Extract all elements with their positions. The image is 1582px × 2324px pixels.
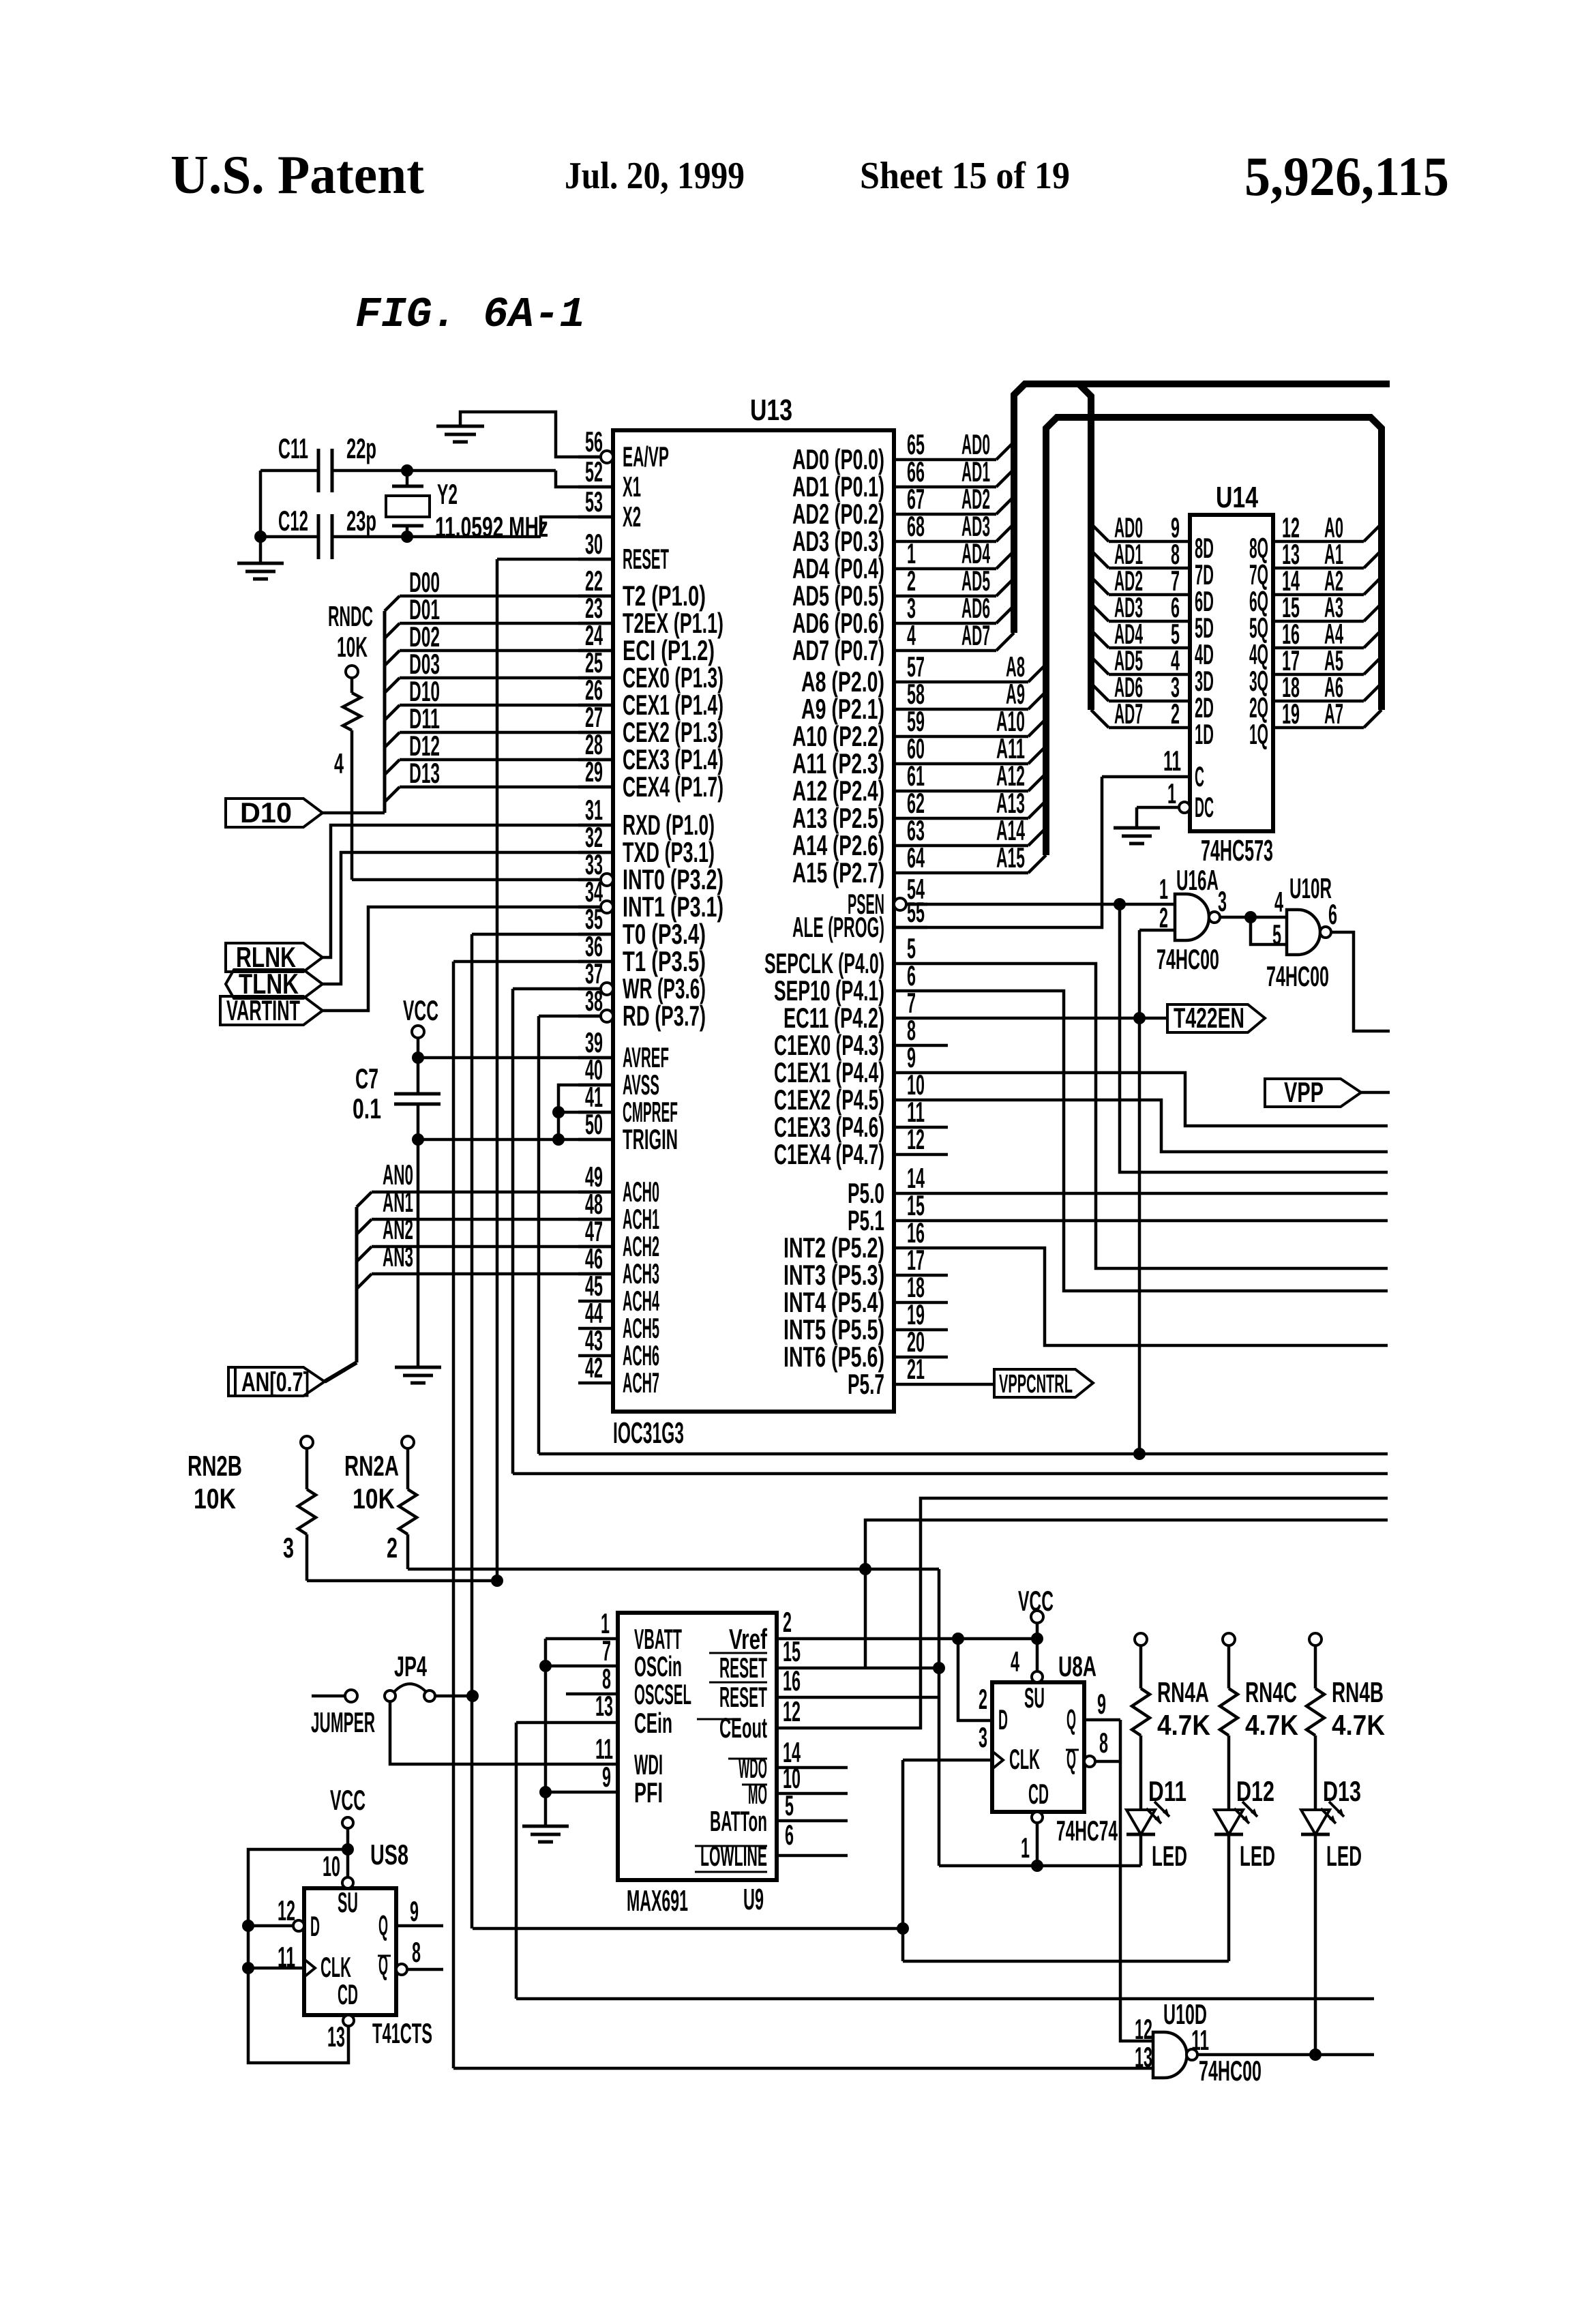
svg-text:RN4C: RN4C xyxy=(1245,1676,1297,1708)
svg-text:D13: D13 xyxy=(1323,1775,1361,1807)
ground above U13 for EA/VP xyxy=(436,425,484,428)
wire CEout rail L3 xyxy=(777,1498,1388,1728)
svg-text:AN3: AN3 xyxy=(383,1240,413,1272)
U13 pin 67 AD2 (P0.2) xyxy=(894,513,927,516)
U13 pin 7 EC11 (P4.2) xyxy=(894,1017,927,1020)
U13 pin 15 P5.1 xyxy=(894,1219,927,1223)
svg-text:6: 6 xyxy=(1328,898,1337,930)
svg-text:2: 2 xyxy=(783,1606,792,1638)
resistor RNDC 10K xyxy=(346,666,358,678)
wire A9 from U13 pin to bus xyxy=(927,708,1028,711)
junction VCC-Vref xyxy=(1031,1633,1043,1645)
wire MAX691 pin15 to vertical xyxy=(777,1667,939,1670)
U14 input pin 3 AD6 xyxy=(1091,683,1109,701)
U10D pin 13 wire xyxy=(453,2067,1153,2070)
junction RESET net xyxy=(491,1575,503,1587)
junction T422EN branch xyxy=(1133,1012,1146,1024)
svg-text:T41CTS: T41CTS xyxy=(372,2017,432,2049)
svg-text:AD7: AD7 xyxy=(961,619,990,651)
wire MAX691 pin16 xyxy=(777,1696,939,1699)
junction PFI xyxy=(539,1786,552,1798)
svg-text:Q: Q xyxy=(378,1949,388,1981)
svg-text:9: 9 xyxy=(602,1761,611,1793)
svg-text:D13: D13 xyxy=(409,757,440,789)
wire AD6 from U13 pin to bus xyxy=(927,622,996,625)
U13 pin 40 AVSS xyxy=(578,1084,613,1087)
wire JP4 to T0 vertical xyxy=(435,1695,473,1698)
wire C1EX1 P4.4 to right rail xyxy=(927,1073,1388,1126)
wire U16A pin2 down to bottom rail xyxy=(1138,930,1141,1454)
U13 pin 33 INT0 (P3.2) xyxy=(601,874,613,886)
wire ALE to U14 C xyxy=(894,777,1102,927)
U14 output pin 14 A2 xyxy=(1273,593,1364,597)
wire P5.0 to right xyxy=(927,1192,1388,1195)
junction CMPREF xyxy=(552,1106,565,1118)
svg-text:12: 12 xyxy=(1135,2013,1152,2045)
U13 pin 43 ACH6 xyxy=(578,1354,613,1358)
U9 pin 5 BATTon stub xyxy=(777,1819,848,1823)
capacitor C7 0.1 xyxy=(417,1058,420,1094)
svg-text:Vref: Vref xyxy=(729,1623,768,1655)
wire down to U8A D input xyxy=(958,1639,992,1720)
U14 pin 11 C latch enable xyxy=(1102,775,1190,779)
svg-text:CD: CD xyxy=(338,1978,358,2010)
bottom long line from CEin xyxy=(516,1997,1374,2001)
analog bus spine AN0-AN3 xyxy=(355,1207,359,1362)
svg-text:U10R: U10R xyxy=(1289,872,1332,904)
wire RESET down to RN2B net xyxy=(497,558,613,561)
bottom rail 2 from WR xyxy=(513,1472,1388,1476)
svg-text:P5.7: P5.7 xyxy=(848,1368,884,1400)
svg-text:1: 1 xyxy=(1159,873,1168,905)
resistor RN2A 10K xyxy=(402,1436,414,1448)
wire D02 to U13 xyxy=(385,651,400,666)
U13 pin 8 C1EX0 (P4.3) xyxy=(894,1044,927,1047)
svg-text:1D: 1D xyxy=(1195,718,1214,750)
svg-text:US8: US8 xyxy=(370,1838,408,1871)
svg-text:EA/VP: EA/VP xyxy=(623,441,669,473)
svg-text:5: 5 xyxy=(785,1789,794,1821)
svg-text:2: 2 xyxy=(979,1683,987,1715)
wire JP4 line xyxy=(473,1927,903,1931)
junction U8A CD xyxy=(1031,1860,1043,1872)
wire X2 into pin 53 xyxy=(541,517,613,537)
wire AD0 from U13 pin to bus xyxy=(927,458,996,462)
svg-text:JUMPER: JUMPER xyxy=(311,1706,375,1738)
wire AD7 from U13 pin to bus xyxy=(927,649,996,653)
svg-text:RESET: RESET xyxy=(623,543,669,575)
U13 pin 50 TRIGIN xyxy=(578,1138,613,1142)
svg-text:21: 21 xyxy=(907,1353,925,1385)
U9 pin 10 MO stub xyxy=(777,1792,848,1796)
wire INT5 stub xyxy=(927,1328,948,1332)
wire P5.7 to VPPCNTRL xyxy=(927,1383,994,1386)
wire JP4 left pin to WDI xyxy=(390,1702,618,1764)
U9 pin 7 OSCin xyxy=(546,1665,618,1668)
U14 input pin 6 AD3 xyxy=(1091,604,1109,621)
U13 pin 57 A8 (P2.0) xyxy=(894,681,927,684)
U13 pin 4 AD7 (P0.7) xyxy=(894,649,927,653)
U14 output pin 15 A3 xyxy=(1273,620,1364,623)
wire A14 from U13 pin to bus xyxy=(927,844,1028,848)
U13 pin 61 A12 (P2.4) xyxy=(894,790,927,793)
svg-text:4.7K: 4.7K xyxy=(1157,1709,1210,1741)
U9 pin 6 LOWLINE stub xyxy=(777,1854,848,1858)
svg-text:RN4A: RN4A xyxy=(1157,1676,1209,1708)
svg-text:A7: A7 xyxy=(1324,698,1343,730)
svg-text:9: 9 xyxy=(1097,1688,1106,1720)
wire X1 into pin 52 xyxy=(556,471,613,487)
svg-text:JP4: JP4 xyxy=(394,1650,427,1682)
U13 pin 63 A14 (P2.6) xyxy=(894,844,927,848)
wire D03 to U13 xyxy=(385,678,400,693)
wire D01 to U13 xyxy=(385,623,400,638)
U13 pin 62 A13 (P2.5) xyxy=(894,817,927,820)
svg-text:D: D xyxy=(310,1910,320,1942)
svg-text:PFI: PFI xyxy=(634,1776,663,1808)
wire RLNK to RXD xyxy=(323,825,613,957)
svg-text:RD (P3.7): RD (P3.7) xyxy=(623,1000,706,1032)
junction US8 VCC tie xyxy=(342,1843,354,1856)
junction TRIGIN tie xyxy=(552,1133,565,1146)
U9 pin 1 VBATT xyxy=(546,1637,618,1641)
svg-text:2: 2 xyxy=(387,1532,398,1564)
flip-flop US8 T41CTS body xyxy=(304,1888,396,2015)
U13 pin 39 AVREF xyxy=(578,1056,613,1060)
wire C1EX2 P4.5 to right rail xyxy=(927,1100,1388,1152)
svg-text:A15: A15 xyxy=(996,841,1025,874)
svg-text:74HC00: 74HC00 xyxy=(1156,943,1219,975)
svg-text:X2: X2 xyxy=(623,501,641,533)
U13 pin 58 A9 (P2.1) xyxy=(894,708,927,711)
junction U16A output to U10R xyxy=(1244,911,1257,923)
wire D11 cathode to CD net xyxy=(1139,1834,1143,1866)
wire C1EX3 stub xyxy=(927,1126,948,1129)
svg-text:55: 55 xyxy=(907,896,925,928)
svg-text:U13: U13 xyxy=(750,393,792,427)
svg-text:SU: SU xyxy=(1024,1682,1045,1714)
wire D13 cathode down to U10D output xyxy=(1314,1834,1317,2055)
U13 pin 14 P5.0 xyxy=(894,1192,927,1195)
U10R output pin6 wire to right xyxy=(1331,932,1390,1031)
svg-text:DC: DC xyxy=(1195,791,1214,823)
svg-text:D12: D12 xyxy=(1236,1775,1274,1807)
svg-text:5: 5 xyxy=(1272,919,1281,951)
U14 output pin 19 A7 xyxy=(1273,726,1364,730)
svg-text:TRIGIN: TRIGIN xyxy=(623,1123,678,1155)
svg-text:CEout: CEout xyxy=(719,1712,767,1744)
svg-text:RNDC: RNDC xyxy=(328,600,373,632)
tag T422EN xyxy=(1167,1004,1265,1032)
U14 input pin 8 AD1 xyxy=(1091,550,1109,568)
wire C12 right to X2 node xyxy=(332,535,541,539)
U13 pin 32 TXD (P3.1) xyxy=(578,851,613,854)
US8 pin 11 CLK input xyxy=(242,1962,254,1974)
wire A13 from U13 pin to bus xyxy=(927,817,1028,820)
wire U8A CLK from jumper net xyxy=(901,1760,905,1961)
svg-text:4: 4 xyxy=(1274,886,1283,918)
U13 pin 26 CEX1 (P1.4) xyxy=(578,704,613,707)
U13 pin 41 CMPREF xyxy=(578,1111,613,1114)
wire TLNK to TXD xyxy=(323,852,613,984)
latch U14 74HC573 body xyxy=(1190,515,1273,831)
U16A pin2 wire xyxy=(1139,929,1175,932)
svg-text:WDI: WDI xyxy=(634,1748,663,1781)
svg-text:U.S. Patent: U.S. Patent xyxy=(170,145,424,205)
svg-text:64: 64 xyxy=(907,841,925,874)
U13 pin 65 AD0 (P0.0) xyxy=(894,458,927,462)
U13 pin 1 AD4 (P0.4) xyxy=(894,567,927,571)
wire RNDC to INT0 xyxy=(352,878,601,882)
U9 pin 13 CEin xyxy=(516,1721,618,1725)
svg-text:4: 4 xyxy=(907,619,916,651)
US8 pin 12 D input xyxy=(242,1920,254,1932)
tag VPP xyxy=(1265,1079,1361,1107)
svg-text:BATTon: BATTon xyxy=(710,1805,767,1837)
svg-text:OSCSEL: OSCSEL xyxy=(634,1678,691,1710)
svg-text:74HC00: 74HC00 xyxy=(1199,2055,1262,2087)
U14 input pin 5 AD4 xyxy=(1091,630,1109,648)
U13 pin 54 PSEN xyxy=(894,898,906,910)
ground at U14 DC pin xyxy=(1114,826,1160,830)
wire A10 from U13 pin to bus xyxy=(927,735,1028,739)
svg-text:30: 30 xyxy=(585,528,603,560)
supervisor U9 MAX691 body xyxy=(618,1613,777,1880)
svg-text:LED: LED xyxy=(1152,1840,1187,1872)
U13 pin 21 P5.7 xyxy=(894,1383,927,1386)
wire TRIGIN pin 50 xyxy=(418,1138,613,1142)
U14 output pin 16 A4 xyxy=(1273,646,1364,650)
wire INT3 stub xyxy=(927,1274,948,1277)
U14 output pin 18 A6 xyxy=(1273,700,1364,703)
U13 pin 2 AD5 (P0.5) xyxy=(894,595,927,598)
node X1 junction at crystal top xyxy=(401,464,413,477)
bus diagonal to AN tag xyxy=(325,1362,357,1382)
wire T0 P3.4 down to jumper node xyxy=(472,933,613,936)
svg-text:VARTINT: VARTINT xyxy=(226,994,300,1026)
svg-text:1Q: 1Q xyxy=(1249,718,1268,750)
ground below C11/C12 xyxy=(237,562,284,565)
wire INT2 P5.2 to right rail xyxy=(927,1248,1388,1345)
svg-text:C: C xyxy=(1195,760,1204,792)
svg-text:2: 2 xyxy=(1171,698,1180,730)
svg-text:2: 2 xyxy=(1159,902,1168,934)
svg-text:C11: C11 xyxy=(278,432,308,464)
U13 pin 3 AD6 (P0.6) xyxy=(894,622,927,625)
wire A15 from U13 pin to bus xyxy=(927,871,1028,875)
svg-text:8: 8 xyxy=(1099,1727,1108,1759)
wire AD3 from U13 pin to bus xyxy=(927,540,996,543)
wire D00 to U13 xyxy=(385,596,400,611)
svg-text:4: 4 xyxy=(334,747,344,779)
tag D10 input xyxy=(226,799,323,827)
svg-text:SU: SU xyxy=(338,1886,358,1918)
U8A pin 4 SU preset xyxy=(1036,1639,1039,1671)
wire D12 cathode down xyxy=(1227,1834,1231,1961)
LED D12 xyxy=(1214,1810,1243,1834)
resistor RN4B 4.7K xyxy=(1309,1633,1322,1645)
svg-text:1: 1 xyxy=(1167,777,1176,809)
svg-text:6: 6 xyxy=(785,1819,794,1851)
wire down to CD net line xyxy=(939,1864,1141,1868)
U10R pin5 wire xyxy=(1251,917,1287,944)
nand gate U16A 74HC00 xyxy=(1175,894,1209,940)
wire EC11 P4.2 to T422EN tag xyxy=(927,1017,1167,1020)
U13 pin 24 ECI (P1.2) xyxy=(578,649,613,653)
U13 pin 64 A15 (P2.7) xyxy=(894,871,927,875)
U13 pin 18 INT4 (P5.4) xyxy=(894,1301,927,1305)
ground at U9 left xyxy=(522,1825,569,1828)
svg-text:0.1: 0.1 xyxy=(353,1092,381,1124)
resistor RN4C 4.7K xyxy=(1223,1633,1235,1645)
U14 input pin 2 AD7 xyxy=(1091,710,1109,728)
nand gate U10D 74HC00 xyxy=(1153,2032,1187,2078)
svg-text:ACH7: ACH7 xyxy=(623,1367,659,1399)
wire U8A Q down to U10D xyxy=(1120,1720,1153,2041)
svg-text:LED: LED xyxy=(1326,1840,1362,1872)
U13 pin 12 C1EX4 (P4.7) xyxy=(894,1153,927,1157)
svg-text:U9: U9 xyxy=(743,1883,764,1916)
wire SEPCLK P4.0 to right rail xyxy=(927,964,1388,1268)
svg-text:CLK: CLK xyxy=(1009,1743,1040,1775)
U14 input pin 9 AD0 xyxy=(1091,524,1109,541)
svg-text:10K: 10K xyxy=(353,1483,395,1515)
U13 pin 42 ACH7 xyxy=(578,1382,613,1385)
svg-text:Q: Q xyxy=(1066,1703,1076,1735)
U16A output pin3 xyxy=(1220,916,1251,919)
U13 pin 34 INT1 (P3.1) xyxy=(601,901,613,913)
U13 pin 46 ACH3 xyxy=(578,1272,613,1276)
U14 output pin 17 A5 xyxy=(1273,673,1364,676)
U9 pin 14 WDO stub xyxy=(777,1766,848,1770)
svg-text:74HC74: 74HC74 xyxy=(1056,1815,1118,1847)
wire D13 to U13 xyxy=(385,787,400,802)
junction cap legs xyxy=(254,531,267,543)
svg-text:ALE (PROG): ALE (PROG) xyxy=(792,911,884,943)
svg-text:11: 11 xyxy=(1163,745,1181,777)
svg-text:A15 (P2.7): A15 (P2.7) xyxy=(792,856,884,889)
svg-text:42: 42 xyxy=(585,1352,603,1384)
bottom rail 1 from RD xyxy=(539,1452,1388,1456)
wire AVSS pin 40 xyxy=(558,1085,613,1139)
svg-text:4.7K: 4.7K xyxy=(1332,1709,1385,1741)
U13 pin 45 ACH4 xyxy=(578,1300,613,1303)
wire A8 from U13 pin to bus xyxy=(927,681,1028,684)
wire CLK net to D12 xyxy=(903,1960,1229,1963)
junction pin15 on CD vertical xyxy=(933,1662,945,1674)
U13 pin 10 C1EX2 (P4.5) xyxy=(894,1099,927,1102)
wire RN2A to MAX691 reset net xyxy=(408,1568,939,1571)
U13 pin 5 SEPCLK (P4.0) xyxy=(894,962,927,966)
U13 pin 36 T1 (P3.5) xyxy=(578,960,613,964)
svg-text:74HC573: 74HC573 xyxy=(1201,834,1273,867)
tag RLNK xyxy=(226,943,323,972)
U13 pin 53 X2 xyxy=(578,516,613,519)
U13 pin 27 CEX2 (P1.3) xyxy=(578,731,613,734)
ground below C7 xyxy=(395,1366,441,1369)
svg-text:23p: 23p xyxy=(346,505,376,537)
U14 input pin 4 AD5 xyxy=(1091,657,1109,674)
U13 pin 22 T2 (P1.0) xyxy=(578,595,613,598)
U10R pin4 wire xyxy=(1251,916,1287,919)
US8 pin 13 CD xyxy=(343,2015,354,2026)
svg-text:RESET: RESET xyxy=(719,1681,767,1713)
wire C1EX0 stub xyxy=(927,1044,948,1047)
U13 pin 35 T0 (P3.4) xyxy=(578,933,613,936)
U10D pin 11 output xyxy=(1198,2053,1374,2057)
svg-text:T422EN: T422EN xyxy=(1174,1002,1244,1034)
svg-text:3: 3 xyxy=(283,1532,294,1564)
bus A8-A15 vertical with second horizontal and A0-A7 vertical xyxy=(1046,417,1382,855)
wire AD1 from U13 pin to bus xyxy=(927,486,996,489)
U13 pin 44 ACH5 xyxy=(578,1327,613,1330)
U8A pin 3 CLK input xyxy=(903,1759,992,1762)
U9 pin 2 Vref to VCC xyxy=(777,1637,1037,1641)
svg-text:10: 10 xyxy=(323,1850,340,1882)
U14 input pin 7 AD2 xyxy=(1091,577,1109,595)
svg-text:RN2A: RN2A xyxy=(344,1450,399,1482)
U13 pin 20 INT6 (P5.6) xyxy=(894,1356,927,1359)
LED D11 xyxy=(1126,1810,1155,1834)
capacitor C12 xyxy=(317,514,320,559)
node X2 junction at crystal bottom xyxy=(401,531,413,543)
U13 pin 68 AD3 (P0.3) xyxy=(894,540,927,543)
svg-text:U16A: U16A xyxy=(1176,864,1219,896)
wire left cap leg vertical xyxy=(259,471,263,563)
svg-text:4.7K: 4.7K xyxy=(1245,1709,1298,1741)
wire D10 tag to bus xyxy=(323,811,385,815)
wire CEin down to bottom line xyxy=(515,1723,518,1999)
jumper pin with wire left xyxy=(312,1695,345,1698)
svg-text:CD: CD xyxy=(1028,1778,1049,1810)
svg-text:52: 52 xyxy=(585,456,603,488)
svg-text:FIG. 6A-1: FIG. 6A-1 xyxy=(355,290,585,339)
LED D13 xyxy=(1301,1810,1330,1834)
svg-text:LED: LED xyxy=(1240,1840,1275,1872)
junction PSEN to right rail xyxy=(1114,898,1126,910)
wire AD2 from U13 pin to bus xyxy=(927,513,996,516)
tag VPPCNTRL xyxy=(994,1369,1093,1397)
wire INT6 stub xyxy=(927,1356,948,1359)
svg-text:AD7 (P0.7): AD7 (P0.7) xyxy=(792,634,884,666)
svg-text:19: 19 xyxy=(1282,698,1300,730)
wire C12 left xyxy=(260,535,318,539)
wire AN0 to ACH0 xyxy=(357,1192,372,1207)
wire CMPREF pin 41 xyxy=(558,1111,613,1114)
U13 pin 23 T2EX (P1.1) xyxy=(578,622,613,625)
flip-flop U8A 74HC74 body xyxy=(992,1682,1084,1812)
bus AD0-AD7 vertical from U13 with top horizontal xyxy=(1014,384,1390,633)
U14 output pin 13 A1 xyxy=(1273,567,1364,570)
junction pin2 rail on bottom rail 1 xyxy=(1133,1448,1146,1460)
wire vertical to CD-D11 net xyxy=(938,1569,941,1866)
svg-text:AN[0.7]: AN[0.7] xyxy=(241,1367,310,1397)
svg-text:VPPCNTRL: VPPCNTRL xyxy=(999,1370,1073,1399)
wire RD down to bottom rail 1 xyxy=(539,1015,601,1018)
U13 pin 66 AD1 (P0.1) xyxy=(894,486,927,489)
U13 pin 37 WR (P3.6) xyxy=(601,983,613,995)
svg-text:D10: D10 xyxy=(240,796,292,829)
U14 output pin 12 A0 xyxy=(1273,540,1364,543)
svg-text:AD7: AD7 xyxy=(1114,698,1143,730)
svg-text:IOC31G3: IOC31G3 xyxy=(613,1416,684,1450)
svg-text:CLK: CLK xyxy=(320,1951,351,1983)
wire PSEN rail down and right xyxy=(1120,904,1388,1172)
U13 pin 55 ALE (PROG) xyxy=(894,926,927,929)
svg-text:Q: Q xyxy=(378,1909,388,1941)
svg-text:22p: 22p xyxy=(346,432,376,464)
svg-text:D: D xyxy=(998,1703,1008,1735)
